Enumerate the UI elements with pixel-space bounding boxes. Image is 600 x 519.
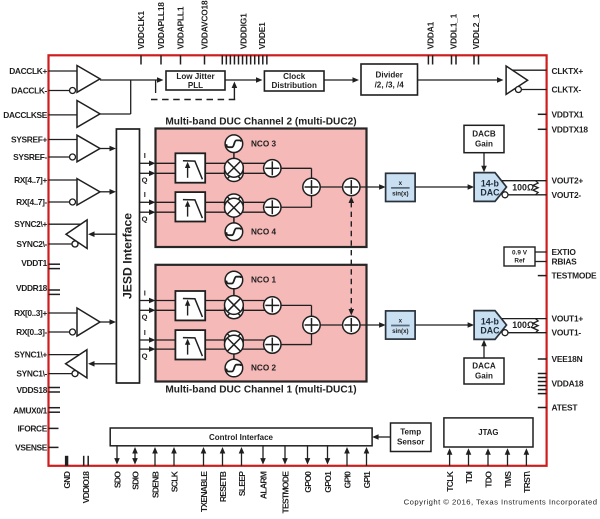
svg-text:GPI1: GPI1 xyxy=(362,471,372,489)
wire TMS arrow xyxy=(505,448,511,466)
wire RBIAS xyxy=(535,261,547,263)
svg-text:VDDAPLL18: VDDAPLL18 xyxy=(156,2,166,50)
interpolation filter DUC1-D xyxy=(175,330,205,359)
svg-text:I: I xyxy=(144,288,146,297)
pin VDDS18 (supply) xyxy=(17,385,60,395)
wire DUC1-C adder output xyxy=(281,304,312,306)
interpolation filter DUC2-B xyxy=(175,192,205,221)
wire clock trunk to PLL xyxy=(100,77,164,83)
pin VDDAVCO18 xyxy=(200,0,210,64)
pin SCLK (bottom) xyxy=(169,470,179,492)
pin DACCLK+ xyxy=(9,66,77,76)
svg-text:Clock: Clock xyxy=(283,72,306,81)
PLL U_PLL: Low Jitter PLL xyxy=(166,71,225,90)
pin TCLK xyxy=(445,470,455,491)
svg-text:VDDA1: VDDA1 xyxy=(426,21,436,49)
svg-text:Q: Q xyxy=(142,176,148,185)
svg-text:VDDR18: VDDR18 xyxy=(16,283,48,293)
svg-text:IFORCE: IFORCE xyxy=(17,423,47,433)
wire GPO0 arrow xyxy=(305,446,311,465)
wire DUC2-B adder output xyxy=(281,206,312,208)
svg-text:VDDAVCO18: VDDAVCO18 xyxy=(200,0,210,49)
svg-text:Control Interface: Control Interface xyxy=(209,433,274,442)
wire DACA gain to DAC xyxy=(481,340,487,358)
wire RX[4..7] buffer to JESD xyxy=(100,189,116,195)
svg-text:sin(x): sin(x) xyxy=(392,328,409,335)
svg-text:JESD Interface: JESD Interface xyxy=(121,213,135,299)
pin RX[4..7]- xyxy=(16,197,75,207)
svg-text:Multi-band DUC Channel 1 (mult: Multi-band DUC Channel 1 (multi-DUC1) xyxy=(165,385,356,396)
svg-text:GND: GND xyxy=(62,471,72,488)
svg-text:ALARM: ALARM xyxy=(258,471,268,499)
buffer CLKTX output xyxy=(506,66,527,94)
pin SYNC1\+ xyxy=(14,350,80,360)
svg-text:Multi-band DUC Channel 2 (mult: Multi-band DUC Channel 2 (multi-DUC2) xyxy=(165,117,356,128)
svg-text:SYSREF+: SYSREF+ xyxy=(11,135,47,145)
svg-text:Temp: Temp xyxy=(400,427,421,436)
pin VOUT1+ xyxy=(552,314,584,324)
NCO 3 xyxy=(225,135,276,159)
wire JESD to SYNC2 buffer xyxy=(88,231,116,237)
svg-text:DACA: DACA xyxy=(472,362,496,371)
svg-text:Gain: Gain xyxy=(475,140,493,149)
wire VOUT1- with bubble xyxy=(502,330,547,336)
pin VDDTX18 xyxy=(538,124,589,134)
wire SCLK arrow xyxy=(171,447,177,466)
pin VEE18N xyxy=(538,354,583,364)
pin ALARM (bottom) xyxy=(258,471,268,499)
svg-text:SYNC2\-: SYNC2\- xyxy=(16,239,47,249)
wire VOUT2+ xyxy=(502,180,547,182)
svg-text:TCLK: TCLK xyxy=(445,470,455,491)
wire ALARM arrow xyxy=(260,446,266,465)
svg-text:NCO 1: NCO 1 xyxy=(251,276,276,285)
pin DACCLK- xyxy=(11,86,75,96)
pin SYSREF- xyxy=(13,152,75,162)
pin VDDA18 (supply tick group) xyxy=(538,374,584,394)
DACA gain block xyxy=(464,358,504,384)
pin SLEEP (bottom) xyxy=(237,471,247,496)
wire x/sin(x) to DACB xyxy=(415,184,474,190)
svg-text:VDDS18: VDDS18 xyxy=(17,385,48,395)
svg-text:I: I xyxy=(144,190,146,199)
DAC A 14-bit xyxy=(474,311,506,340)
wire DUC1 summer to x/sin(x) xyxy=(360,322,386,328)
pin TESTMODE (right) xyxy=(538,271,597,281)
wire DUC2-A Q path xyxy=(156,172,273,174)
svg-text:Q: Q xyxy=(142,352,148,361)
adder DUC1 combiner xyxy=(303,316,320,333)
svg-text:Q: Q xyxy=(142,215,148,224)
svg-text:/2, /3, /4: /2, /3, /4 xyxy=(375,81,405,90)
copyright note xyxy=(404,498,598,507)
pin VDDL2_1 xyxy=(471,13,481,64)
wire SDIO arrow xyxy=(132,447,138,465)
wire SYSREF buffer to JESD xyxy=(100,146,116,152)
svg-text:x: x xyxy=(399,318,403,325)
pin GPI0 (bottom) xyxy=(342,471,352,489)
svg-text:100Ω: 100Ω xyxy=(512,182,534,192)
pin VDDAPLL18 xyxy=(156,2,166,65)
buffer DACCLKSE input xyxy=(77,101,100,128)
wire PLL to Clock Distribution xyxy=(225,77,263,83)
buffer SYNC2 output xyxy=(66,220,87,249)
wire JESD I line DUC1-C xyxy=(140,288,156,303)
svg-text:VDDT1: VDDT1 xyxy=(21,258,47,268)
pin SYNC2\+ xyxy=(14,219,80,229)
svg-text:TDI: TDI xyxy=(464,471,474,483)
svg-text:Distribution: Distribution xyxy=(271,81,316,90)
svg-text:VDDL2_1: VDDL2_1 xyxy=(471,13,481,49)
temp sensor block xyxy=(391,423,432,452)
buffer RX[4..7] input xyxy=(77,179,100,206)
svg-text:SDENB: SDENB xyxy=(150,471,160,498)
adder DUC2-A xyxy=(264,160,281,177)
pin TRST\ xyxy=(522,470,532,492)
pin VDDA1 xyxy=(426,21,436,64)
svg-text:SYNC1\+: SYNC1\+ xyxy=(14,350,47,360)
pin VDDL1_1 xyxy=(449,13,459,64)
mixer pair DUC1-C xyxy=(225,296,244,319)
wire DUC1-C I path xyxy=(156,300,273,302)
svg-text:PLL: PLL xyxy=(188,81,203,90)
svg-text:TMS: TMS xyxy=(503,471,513,488)
svg-text:VOUT1-: VOUT1- xyxy=(552,328,582,338)
svg-text:Copyright © 2016, Texas Instru: Copyright © 2016, Texas Instruments Inco… xyxy=(404,498,598,507)
pin VOUT2+ xyxy=(552,176,584,186)
wire DUC2-A adder output xyxy=(281,167,312,169)
divider block /2,/3,/4 xyxy=(361,64,418,95)
wire SDO arrow xyxy=(114,446,120,465)
svg-text:GPI0: GPI0 xyxy=(342,471,352,489)
pin VDDE1 (supply tick group right) xyxy=(247,22,267,65)
pin DACCLKSE xyxy=(3,110,77,120)
ground pin GND xyxy=(62,456,72,489)
adder DUC2 output summer xyxy=(343,178,360,195)
buffer DACCLK differential input xyxy=(77,66,100,93)
svg-text:DACCLK-: DACCLK- xyxy=(11,86,47,96)
wire JESD I line DUC2-A xyxy=(140,151,156,166)
pin VDDTX1 xyxy=(538,109,584,119)
JESD Interface block xyxy=(116,129,139,383)
svg-text:DACCLKSE: DACCLKSE xyxy=(3,110,47,120)
wire DUC1-D I path xyxy=(156,339,273,341)
svg-text:Low Jitter: Low Jitter xyxy=(176,72,215,81)
NCO 1 xyxy=(225,271,276,295)
reference 0.9V xyxy=(504,247,535,266)
svg-text:I: I xyxy=(144,328,146,337)
wire JESD I line DUC2-B xyxy=(140,190,156,205)
svg-text:VEE18N: VEE18N xyxy=(552,354,583,364)
svg-text:RESETB: RESETB xyxy=(218,471,228,502)
svg-text:JTAG: JTAG xyxy=(478,428,498,437)
svg-text:NCO 4: NCO 4 xyxy=(251,227,276,236)
adder DUC1-C xyxy=(264,297,281,314)
svg-text:VSENSE: VSENSE xyxy=(15,442,48,452)
svg-text:SYNC1\-: SYNC1\- xyxy=(16,369,47,379)
pin TMS xyxy=(503,471,513,488)
DAC B 14-bit xyxy=(474,173,506,202)
pin TDI xyxy=(464,471,474,483)
pin ATEST xyxy=(538,403,579,413)
wire TRST\ arrow xyxy=(524,448,530,466)
svg-text:DAC: DAC xyxy=(480,188,500,198)
terminator 100 ohm DUC1 xyxy=(512,319,538,333)
svg-text:TXENABLE: TXENABLE xyxy=(199,471,209,512)
svg-text:TRST\: TRST\ xyxy=(522,470,532,492)
adder DUC2 combiner xyxy=(303,178,320,195)
wire EXTIO xyxy=(535,251,547,253)
svg-text:VDDE1: VDDE1 xyxy=(257,22,267,49)
svg-text:SYNC2\+: SYNC2\+ xyxy=(14,219,47,229)
svg-text:TESTMODE: TESTMODE xyxy=(552,271,598,281)
multi-band DUC channel 2 title xyxy=(165,117,356,128)
mixer pair DUC2-A xyxy=(225,158,244,181)
pin VOUT1- xyxy=(552,328,582,338)
pin SDENB (bottom) xyxy=(150,471,160,498)
wire TESTMODE arrow xyxy=(282,446,288,465)
svg-text:VDDCLK1: VDDCLK1 xyxy=(136,11,146,50)
svg-text:VOUT2-: VOUT2- xyxy=(552,190,582,200)
svg-text:AMUX0/1: AMUX0/1 xyxy=(13,406,48,416)
wire DUC1-D adder output xyxy=(281,344,312,346)
wire JESD to SYNC1 buffer xyxy=(88,361,116,367)
svg-text:RX[4..7]-: RX[4..7]- xyxy=(16,197,47,207)
svg-text:SLEEP: SLEEP xyxy=(237,471,247,496)
svg-text:EXTIO: EXTIO xyxy=(552,247,577,257)
pin VDDT1 (supply) xyxy=(21,258,60,269)
svg-text:DACCLK+: DACCLK+ xyxy=(9,66,47,76)
svg-text:NCO 2: NCO 2 xyxy=(251,364,276,373)
wire temp sensor to control interface xyxy=(372,434,390,440)
wire RX[0..3] buffer to JESD xyxy=(100,319,116,325)
pin SYNC1\- xyxy=(16,369,78,379)
sinc compensation x/sin(x) DUC2 xyxy=(386,173,416,201)
svg-text:CLKTX+: CLKTX+ xyxy=(552,66,584,76)
wire SDENB arrow xyxy=(152,447,158,466)
wire JESD Q line DUC2-A xyxy=(140,171,156,185)
svg-text:Q: Q xyxy=(142,313,148,322)
wire TDO arrow xyxy=(485,448,491,466)
wire DACCLKSE buffer output join xyxy=(100,80,131,114)
adder DUC2-B xyxy=(264,199,281,216)
svg-text:RBIAS: RBIAS xyxy=(552,257,578,267)
wire DUC1-C Q path xyxy=(156,309,273,311)
NCO 4 xyxy=(225,217,276,240)
svg-text:Gain: Gain xyxy=(475,372,493,381)
interpolation filter DUC2-A xyxy=(175,153,205,182)
control interface block xyxy=(110,428,372,446)
svg-text:RX[4..7]+: RX[4..7]+ xyxy=(14,175,47,185)
wire VOUT1+ xyxy=(502,318,547,320)
pin VDDDIG1 (supply tick group left) xyxy=(222,13,248,65)
wire TXENABLE arrow xyxy=(201,447,207,466)
wire JESD Q line DUC2-B xyxy=(140,209,156,223)
wire DUC2 summer to x/sin(x) xyxy=(360,184,386,190)
pin VDDAPLL1 xyxy=(176,6,186,64)
wire TDI arrow xyxy=(466,448,472,466)
svg-text:RX[0..3]-: RX[0..3]- xyxy=(16,327,47,337)
svg-text:x: x xyxy=(399,180,403,187)
wire RESETB arrow xyxy=(220,447,226,466)
svg-text:Divider: Divider xyxy=(375,71,403,80)
wire CLKTX+ xyxy=(513,69,547,71)
pin GPO1 (bottom) xyxy=(323,471,333,493)
svg-text:VDDIO18: VDDIO18 xyxy=(81,471,91,503)
svg-text:VOUT2+: VOUT2+ xyxy=(552,176,584,186)
pin VDDIO18 (supply) xyxy=(81,456,91,504)
svg-text:SYSREF-: SYSREF- xyxy=(13,152,47,162)
pin VDDR18 (supply) xyxy=(16,283,60,294)
wire Clock Distribution to Divider xyxy=(324,77,359,83)
svg-text:GPO1: GPO1 xyxy=(323,471,333,493)
sinc compensation x/sin(x) DUC1 xyxy=(386,311,416,339)
svg-text:VOUT1+: VOUT1+ xyxy=(552,314,584,324)
svg-text:0.9 V: 0.9 V xyxy=(512,250,528,257)
wire DUC1-D Q path xyxy=(156,348,273,350)
svg-text:VDDA18: VDDA18 xyxy=(552,379,584,389)
wire GPI1 arrow xyxy=(364,447,370,466)
chip boundary red border xyxy=(49,55,547,466)
NCO 2 xyxy=(225,354,276,377)
svg-text:VDDTX18: VDDTX18 xyxy=(552,124,589,134)
pin RX[0..3]+ xyxy=(14,308,77,318)
wire DUC2-B I path xyxy=(156,201,273,203)
pin SYNC2\- xyxy=(16,239,78,249)
svg-text:TDO: TDO xyxy=(483,471,493,488)
wire JESD Q line DUC1-C xyxy=(140,308,156,322)
buffer SYSREF input xyxy=(77,135,100,162)
pin CLKTX+ xyxy=(552,66,584,76)
pin RESETB (bottom) xyxy=(218,471,228,502)
wire Divider to CLKTX buffer xyxy=(418,77,504,83)
svg-text:GPO0: GPO0 xyxy=(303,471,313,493)
pin RX[4..7]+ xyxy=(14,175,77,185)
svg-text:CLKTX-: CLKTX- xyxy=(552,85,582,95)
pin VOUT2- xyxy=(552,190,582,200)
multi-band DUC channel 1 block (pink) xyxy=(156,265,367,382)
pin TXENABLE (bottom) xyxy=(199,471,209,512)
pin SYSREF+ xyxy=(11,135,77,145)
pin GPO0 (bottom) xyxy=(303,471,313,493)
pin TDO xyxy=(483,471,493,488)
wire GPO1 arrow xyxy=(325,446,331,465)
svg-text:SDO: SDO xyxy=(112,471,122,488)
wire CLKTX- with bubble xyxy=(515,87,546,93)
wire GPI0 arrow xyxy=(344,447,350,466)
wire DUC2-B Q path xyxy=(156,211,273,213)
wire x/sin(x) to DACA xyxy=(415,322,474,328)
svg-text:TESTMODE: TESTMODE xyxy=(280,471,290,514)
wire DUC1 combiner vertical xyxy=(311,305,313,344)
adder DUC1 output summer xyxy=(343,316,360,333)
svg-text:VDDAPLL1: VDDAPLL1 xyxy=(176,6,186,49)
multi-band DUC channel 1 title xyxy=(165,385,356,396)
pin CLKTX- xyxy=(552,85,582,95)
mixer pair DUC2-B xyxy=(225,194,244,217)
wire VOUT2- with bubble xyxy=(502,192,547,198)
pin RX[0..3]- xyxy=(16,327,75,337)
pin GPI1 (bottom) xyxy=(362,471,372,489)
wire JESD I line DUC1-D xyxy=(140,328,156,343)
pin TESTMODE (bottom) xyxy=(280,471,290,514)
JTAG block xyxy=(444,418,533,447)
svg-text:VDDTX1: VDDTX1 xyxy=(552,109,584,119)
wire JESD Q line DUC1-D xyxy=(140,346,156,360)
clock distribution block xyxy=(264,71,324,91)
wire DUC2 combiner to final adder xyxy=(320,186,342,188)
buffer SYNC1 output xyxy=(66,350,87,378)
buffer RX[0..3] input xyxy=(77,308,100,336)
svg-text:I: I xyxy=(144,151,146,160)
wire SLEEP arrow xyxy=(239,447,245,466)
pin IFORCE xyxy=(17,423,58,433)
svg-text:Sensor: Sensor xyxy=(397,437,425,446)
wire DUC1 combiner to final adder xyxy=(320,324,342,326)
pin SDIO (bottom) xyxy=(130,471,140,490)
terminator 100 ohm DUC2 xyxy=(512,181,538,195)
svg-text:Ref: Ref xyxy=(514,258,525,265)
pin AMUX0/1 xyxy=(13,406,60,416)
svg-text:SCLK: SCLK xyxy=(169,470,179,492)
pin RBIAS xyxy=(552,257,578,267)
wire DUC2 combiner vertical xyxy=(311,168,313,207)
pin VDDCLK1 xyxy=(136,11,146,65)
adder DUC1-D xyxy=(264,336,281,353)
svg-text:ATEST: ATEST xyxy=(552,403,579,413)
DACB gain block xyxy=(464,125,504,152)
mixer pair DUC1-D xyxy=(225,331,244,354)
PLL bypass dashed path xyxy=(151,80,237,100)
dashed cross-sum wire between DUC summers xyxy=(349,197,355,316)
svg-text:VDDDIG1: VDDDIG1 xyxy=(239,13,249,49)
wire DACB gain to DAC xyxy=(481,153,487,173)
svg-text:DAC: DAC xyxy=(480,326,500,336)
wire TCLK arrow xyxy=(447,448,453,466)
multi-band DUC channel 2 block (pink) xyxy=(156,129,367,248)
pin EXTIO xyxy=(552,247,577,257)
svg-text:RX[0..3]+: RX[0..3]+ xyxy=(14,308,47,318)
wire DUC2-A I path xyxy=(156,162,273,164)
interpolation filter DUC1-C xyxy=(175,291,205,320)
pin SDO (bottom) xyxy=(112,471,122,488)
svg-text:sin(x): sin(x) xyxy=(392,191,409,198)
svg-text:NCO 3: NCO 3 xyxy=(251,139,276,148)
svg-text:VDDL1_1: VDDL1_1 xyxy=(449,13,459,49)
svg-text:SDIO: SDIO xyxy=(130,471,140,490)
pin VSENSE xyxy=(15,442,58,452)
svg-text:DACB: DACB xyxy=(472,130,496,139)
svg-text:100Ω: 100Ω xyxy=(512,320,534,330)
